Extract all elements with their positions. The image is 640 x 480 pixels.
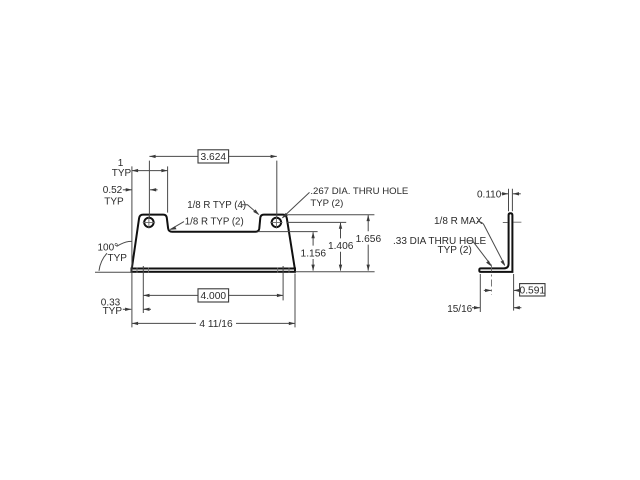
label 1/8 R MAX: [434, 216, 505, 266]
dim 0.591: [484, 274, 546, 311]
svg-text:0.52: 0.52: [103, 185, 123, 196]
svg-text:1/8 R TYP (2): 1/8 R TYP (2): [185, 216, 244, 227]
svg-text:TYP: TYP: [103, 306, 123, 317]
dim 3.624: [149, 150, 276, 218]
dim 0.33 TYP: [101, 298, 151, 317]
label 1/8 R TYP (2): [170, 216, 244, 230]
svg-text:1/8 R MAX: 1/8 R MAX: [434, 216, 483, 227]
side hole centermark on vertical leg: [503, 221, 522, 223]
ext lines right of part: [258, 231, 318, 233]
svg-text:4.000: 4.000: [201, 291, 227, 302]
label .33 DIA THRU HOLE TYP (2): [393, 236, 491, 266]
svg-text:1.656: 1.656: [356, 234, 382, 245]
svg-text:1/8 R TYP (4): 1/8 R TYP (4): [187, 200, 246, 211]
label .267 DIA. THRU HOLE TYP (2): [282, 186, 409, 219]
dim 1.156: [301, 232, 327, 271]
svg-text:100°: 100°: [98, 243, 119, 254]
side view part outline: [479, 213, 512, 272]
dim 0.52 TYP: [103, 185, 158, 207]
front view bottom flange bar: [132, 269, 296, 272]
hole left: [144, 218, 153, 227]
dim 4 11/16: [132, 274, 295, 331]
svg-text:15/16: 15/16: [447, 304, 472, 315]
svg-text:0.110: 0.110: [477, 189, 502, 200]
svg-text:3.624: 3.624: [201, 152, 227, 163]
side hole centerline in bottom leg: [491, 265, 493, 296]
svg-text:TYP (2): TYP (2): [310, 198, 343, 209]
label 1/8 R TYP (4): [187, 200, 259, 215]
dim 15/16: [447, 274, 521, 315]
hole right: [272, 218, 281, 227]
svg-text:TYP (2): TYP (2): [438, 245, 472, 256]
dim 4.000: [143, 266, 283, 313]
dim 1 TYP: [112, 158, 168, 327]
baseline right: [295, 271, 374, 273]
svg-text:.267 DIA. THRU HOLE: .267 DIA. THRU HOLE: [310, 186, 408, 197]
hidden hole edge right: [278, 268, 289, 273]
svg-text:4 11/16: 4 11/16: [199, 319, 233, 330]
svg-text:1.156: 1.156: [301, 248, 327, 259]
dim 1.656: [356, 215, 382, 271]
dim 1.406: [328, 223, 354, 271]
hidden hole edge left: [137, 268, 148, 273]
front view part outline: [132, 215, 295, 269]
dim 0.110: [477, 189, 521, 211]
svg-text:TYP: TYP: [112, 168, 132, 179]
svg-text:TYP: TYP: [104, 197, 124, 208]
svg-text:1.406: 1.406: [328, 241, 354, 252]
svg-text:TYP: TYP: [108, 253, 128, 264]
svg-text:0.591: 0.591: [520, 285, 546, 296]
dim 100 deg TYP: [95, 241, 132, 272]
